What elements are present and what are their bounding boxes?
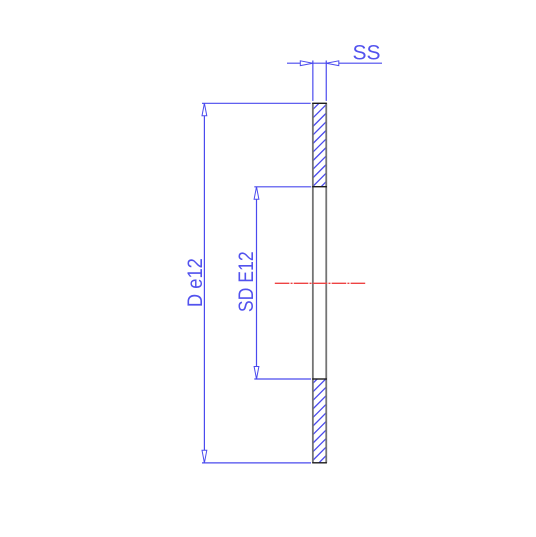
svg-text:SD E12: SD E12	[235, 251, 259, 312]
svg-text:D e12: D e12	[184, 258, 207, 307]
svg-text:SS: SS	[352, 42, 380, 65]
